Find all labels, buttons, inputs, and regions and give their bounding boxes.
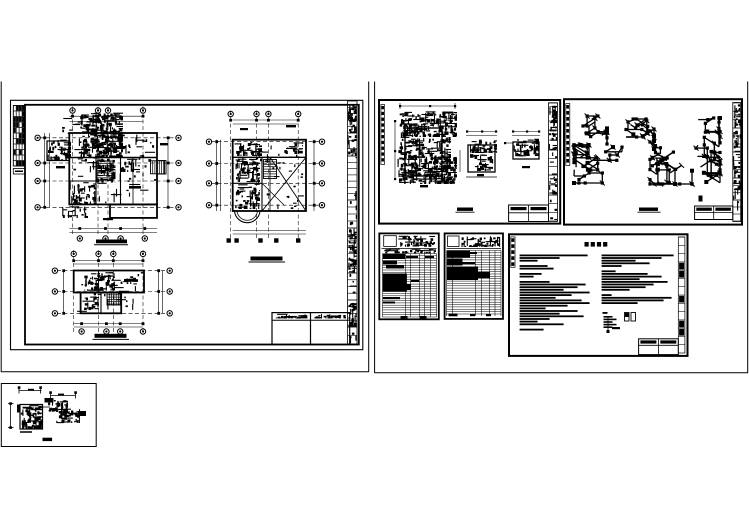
riser cluster 5 xyxy=(694,116,723,184)
riser cluster 4 xyxy=(648,140,695,187)
detail A xyxy=(8,386,43,432)
left sheet title block xyxy=(272,313,350,345)
left sheet right title strip xyxy=(348,101,358,344)
riser small mark xyxy=(699,196,703,202)
plumb title block xyxy=(509,205,549,222)
spec title block xyxy=(639,339,679,355)
spec left strip xyxy=(511,237,515,267)
riser sheet border xyxy=(564,99,742,224)
detail B xyxy=(39,391,86,423)
spec left text xyxy=(520,255,590,331)
plan2 title xyxy=(249,257,286,263)
plumb sheet left strip xyxy=(381,105,385,165)
left sheet border xyxy=(11,100,363,349)
right page outer edge xyxy=(375,82,748,374)
riser cluster 2 xyxy=(624,117,656,151)
table1 xyxy=(379,233,439,319)
spec legend xyxy=(603,312,636,333)
riser cluster 3 xyxy=(572,143,624,186)
plan1 first floor xyxy=(35,107,181,242)
spec right strip xyxy=(678,237,685,353)
plumb detail 3 xyxy=(504,130,540,168)
plumb detail 2 xyxy=(460,130,497,177)
left page outer edge xyxy=(1,82,369,373)
plan2 second floor xyxy=(206,111,324,243)
riser cluster 1 xyxy=(581,114,609,146)
spec title xyxy=(585,242,608,247)
plumb sheet title xyxy=(456,208,475,213)
left sheet inner frame xyxy=(25,105,359,345)
plumb sheet right strip xyxy=(549,103,558,222)
plan3 third floor xyxy=(52,250,172,334)
plan1 title xyxy=(94,240,128,245)
riser sheet title xyxy=(638,208,661,213)
plan3 title xyxy=(93,334,130,340)
spec right text xyxy=(602,255,674,305)
riser left strip xyxy=(566,104,570,166)
riser right strip xyxy=(733,103,741,222)
spec sheet border xyxy=(509,234,688,356)
detail box border xyxy=(1,384,96,447)
table2 xyxy=(445,233,503,319)
left sheet revision strip xyxy=(13,106,25,175)
detail box title xyxy=(43,438,53,441)
plumb sheet border xyxy=(379,100,560,224)
riser title block xyxy=(695,206,733,220)
plumb detail 1 xyxy=(394,103,457,187)
